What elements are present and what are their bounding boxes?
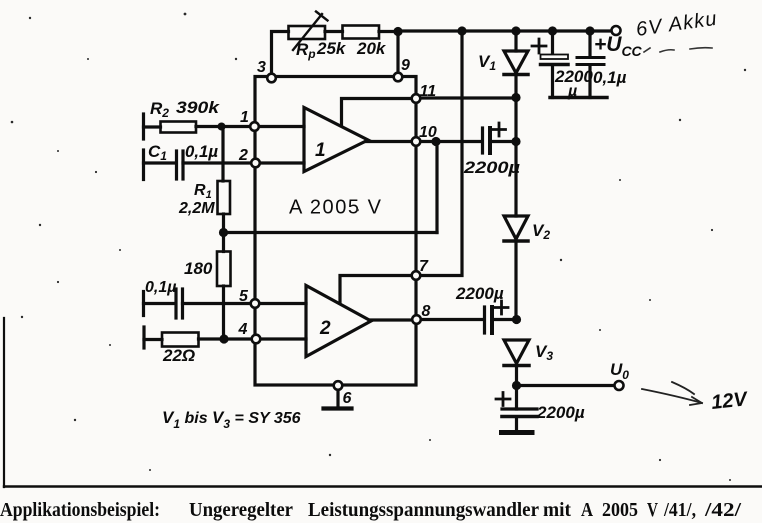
diode V2	[504, 216, 528, 239]
svg-text:A: A	[581, 500, 593, 521]
node junction at R2/pin1	[218, 123, 226, 131]
feedback column wire	[435, 142, 438, 233]
rail junction V1	[511, 26, 520, 35]
svg-text:2200µ: 2200µ	[455, 284, 504, 303]
plus sign pin8 cap	[495, 301, 508, 314]
svg-text:V1 bis V3 = SY 356: V1 bis V3 = SY 356	[162, 408, 301, 431]
diode V1	[514, 31, 517, 51]
junction 20k rail	[393, 27, 402, 36]
rail junction C 0.1u	[585, 26, 594, 35]
pin circle 10	[412, 137, 421, 146]
ground pin6	[324, 406, 352, 410]
wire terminal to C1	[144, 161, 177, 164]
svg-text:1: 1	[240, 109, 249, 126]
wire 22 to pin4	[199, 337, 252, 340]
svg-text:3: 3	[257, 59, 266, 76]
resistor 22 ohm	[162, 333, 199, 347]
svg-text:390k: 390k	[176, 98, 221, 117]
capacitor 0.1u at Ucc	[588, 31, 591, 57]
top supply rail	[398, 29, 612, 32]
svg-text:Rp: Rp	[296, 40, 316, 61]
pin7 supply wire	[421, 31, 463, 276]
wire 20k to rail	[379, 30, 398, 33]
junction cap to rail	[511, 137, 520, 146]
pin circle 1	[250, 122, 259, 131]
rail junction C 2200u	[548, 26, 557, 35]
svg-text:12V: 12V	[710, 388, 749, 414]
svg-text:A 2005 V: A 2005 V	[289, 197, 382, 219]
resistor 20k	[343, 26, 380, 39]
handwritten arrow to 12V	[642, 382, 702, 405]
svg-text:0,1µ: 0,1µ	[593, 68, 627, 87]
svg-text:R1: R1	[194, 182, 212, 201]
svg-text:V2: V2	[532, 221, 550, 242]
svg-text:U0: U0	[610, 360, 629, 382]
svg-text:V3: V3	[535, 342, 553, 363]
junction on pin10 wire	[431, 137, 440, 146]
svg-text:V1: V1	[478, 52, 496, 73]
wire op-amp2 output to pin8	[369, 318, 413, 321]
svg-text:0,1µ: 0,1µ	[185, 142, 218, 161]
pin circle 6	[334, 381, 343, 390]
svg-text:9: 9	[401, 57, 410, 74]
wire bias node to 180	[222, 233, 225, 252]
wire to output terminal	[517, 384, 615, 387]
svg-text:2,2M: 2,2M	[178, 200, 215, 217]
junction bias node	[219, 228, 228, 237]
ground output	[502, 430, 533, 435]
svg-text:Leistungsspannungswandler: Leistungsspannungswandler	[308, 500, 539, 521]
svg-text:25k: 25k	[316, 39, 347, 58]
caption text	[0, 500, 742, 521]
wire down to node9	[396, 32, 399, 74]
wire pin4 to op-amp2	[261, 337, 307, 340]
IC box U1 A2005V outline	[255, 77, 416, 386]
wire C1 to pin2	[183, 161, 251, 164]
junction output node	[512, 381, 521, 390]
junction pin8 cap to rail	[512, 315, 521, 324]
svg-text:2200µ: 2200µ	[463, 158, 520, 177]
capacitor 2200u at Ucc	[551, 31, 554, 55]
svg-text:6: 6	[343, 390, 352, 407]
wire terminal to R2	[144, 125, 161, 128]
wire R1 to bias node	[222, 214, 225, 233]
wire pin1 to op-amp1	[259, 125, 305, 128]
ground bar below caps	[550, 96, 607, 99]
rail junction pin7 branch	[457, 26, 466, 35]
frame bottom border	[4, 485, 762, 487]
pin circle 11	[412, 94, 421, 103]
op-amp 2	[306, 286, 371, 357]
pin circle 2	[251, 159, 260, 168]
wire node3 up to potentiometer	[272, 32, 289, 75]
op-amp 1	[304, 108, 368, 172]
diode V3	[504, 340, 529, 364]
input terminal bar C1	[142, 150, 145, 180]
svg-text:6V Akku: 6V Akku	[635, 8, 719, 41]
wire 180 to pin4 node	[222, 286, 225, 339]
wire terminal to 22 ohm	[144, 338, 162, 341]
wire pin11 bootstrap to op-amp1	[342, 99, 412, 126]
wire terminal to cap	[144, 302, 176, 305]
svg-text:C1: C1	[148, 142, 167, 163]
output terminal U0	[615, 381, 624, 390]
capacitor 0.1u lower input	[174, 289, 177, 318]
svg-text:1: 1	[315, 140, 326, 161]
potentiometer arrow	[293, 14, 322, 50]
wire cap to pin5	[183, 302, 251, 305]
svg-text:0,1µ: 0,1µ	[145, 279, 176, 296]
svg-text:Ungeregelter: Ungeregelter	[189, 500, 293, 521]
potentiometer Rp 25k	[289, 26, 326, 39]
svg-text:V: V	[647, 500, 658, 521]
svg-text:R2: R2	[150, 99, 169, 120]
svg-text:20k: 20k	[356, 39, 387, 58]
resistor R1 2.2M	[218, 181, 231, 214]
capacitor 2200u at pin10	[421, 140, 482, 143]
svg-text:+UCC: +UCC	[594, 33, 643, 59]
right rail V1 node down to V2	[514, 98, 517, 217]
svg-text:2005: 2005	[602, 500, 638, 521]
svg-text:2: 2	[319, 318, 331, 339]
svg-text:5: 5	[239, 288, 249, 305]
wire node to R1	[221, 127, 224, 182]
svg-text:22Ω: 22Ω	[162, 346, 195, 365]
wire pin2 to op-amp1	[260, 161, 304, 164]
wire R2 to pin1	[196, 125, 250, 128]
pin6 ground stem	[336, 390, 339, 408]
pin circle 3	[267, 74, 276, 83]
wire pin5 to op-amp2	[260, 302, 307, 305]
svg-text:180: 180	[184, 259, 213, 278]
wire pot to 20k	[325, 30, 343, 33]
svg-text:/41/,: /41/,	[663, 500, 696, 521]
wire pin11 to V1 node	[421, 96, 517, 99]
pin circle 8	[412, 315, 421, 324]
wire op-amp1 output to pin10	[366, 140, 412, 143]
svg-text:/42/: /42/	[704, 500, 742, 521]
svg-text:10: 10	[419, 124, 437, 141]
pin circle 7	[412, 271, 421, 280]
capacitor C1 0.1u	[175, 151, 178, 179]
svg-text:7: 7	[419, 258, 429, 275]
plus sign output cap	[496, 393, 510, 406]
junction V1 bottom	[511, 93, 520, 102]
pin circle 9	[394, 73, 403, 82]
supply terminal Ucc	[612, 26, 621, 35]
pin circle 4	[252, 335, 261, 344]
plus sign pin10 cap	[493, 123, 506, 136]
frame left border	[3, 318, 5, 487]
plus sign 2200u Ucc	[532, 39, 546, 53]
output capacitor 2200u	[515, 386, 518, 410]
resistor 180	[217, 252, 231, 287]
capacitor 2200u at pin8	[422, 318, 485, 321]
svg-text:2200µ: 2200µ	[536, 403, 585, 422]
svg-text:Applikationsbeispiel:: Applikationsbeispiel:	[0, 500, 160, 521]
svg-text:4: 4	[238, 321, 248, 338]
wire pin7 bootstrap to op-amp2	[340, 276, 412, 303]
svg-text:8: 8	[422, 303, 431, 320]
junction on pin4 wire	[219, 334, 228, 343]
svg-text:mit: mit	[543, 500, 572, 521]
svg-text:11: 11	[420, 83, 437, 100]
resistor R2 390k	[161, 122, 197, 133]
input terminal bar top	[142, 114, 145, 139]
input terminal bar 0.1u	[142, 292, 145, 316]
pin circle 5	[251, 299, 260, 308]
svg-text:2: 2	[238, 147, 248, 164]
input terminal bar 22	[142, 327, 145, 348]
bias wire across to feedback column	[224, 231, 438, 234]
